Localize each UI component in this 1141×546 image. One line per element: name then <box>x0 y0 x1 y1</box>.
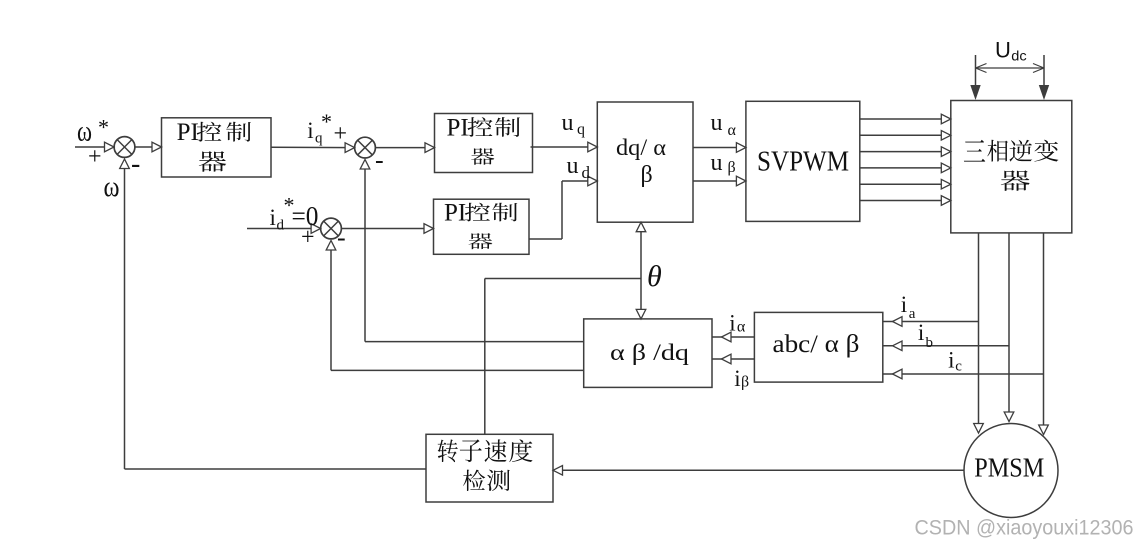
svg-text:i: i <box>270 205 276 230</box>
svg-text:SVPWM: SVPWM <box>757 146 849 177</box>
svg-text:β: β <box>728 159 736 176</box>
svg-text:u: u <box>711 110 723 136</box>
svg-text:α β /dq: α β /dq <box>610 340 690 365</box>
svg-text:u: u <box>567 153 579 179</box>
svg-text:+: + <box>88 144 102 170</box>
svg-text:i: i <box>901 292 907 317</box>
svg-text:-: - <box>337 223 346 252</box>
svg-text:c: c <box>955 359 962 375</box>
svg-text:PI: PI <box>444 200 466 227</box>
svg-text:-: - <box>131 149 140 180</box>
svg-text:α: α <box>728 122 737 139</box>
svg-text:PMSM: PMSM <box>974 451 1044 482</box>
svg-text:ω: ω <box>77 115 92 148</box>
svg-text:β: β <box>641 162 653 188</box>
svg-text:α: α <box>737 319 746 336</box>
svg-text:PI: PI <box>447 115 469 142</box>
svg-text:*: * <box>321 109 332 134</box>
svg-text:i: i <box>307 118 313 143</box>
svg-text:θ: θ <box>647 260 662 293</box>
svg-text:d: d <box>277 218 285 234</box>
svg-text:a: a <box>909 306 916 322</box>
svg-text:d: d <box>582 163 591 182</box>
svg-text:+: + <box>334 121 348 147</box>
svg-text:i: i <box>948 348 954 373</box>
svg-text:+: + <box>301 224 315 250</box>
svg-text:u: u <box>711 150 723 176</box>
svg-text:dq/ α: dq/ α <box>616 135 666 160</box>
svg-text:U: U <box>995 37 1011 62</box>
svg-text:-: - <box>375 146 384 175</box>
svg-text:i: i <box>918 320 924 345</box>
svg-text:PI: PI <box>177 119 199 146</box>
svg-text:q: q <box>577 121 585 138</box>
svg-text:*: * <box>98 115 109 140</box>
svg-text:dc: dc <box>1011 47 1026 63</box>
svg-text:β: β <box>741 374 749 391</box>
svg-text:u: u <box>562 110 574 136</box>
svg-text:b: b <box>926 335 934 351</box>
svg-text:CSDN @xiaoyouxi12306: CSDN @xiaoyouxi12306 <box>915 516 1134 540</box>
svg-text:i: i <box>729 310 735 335</box>
svg-text:abc/ α β: abc/ α β <box>773 329 860 358</box>
svg-text:i: i <box>734 366 740 391</box>
svg-text:ω: ω <box>104 170 120 203</box>
